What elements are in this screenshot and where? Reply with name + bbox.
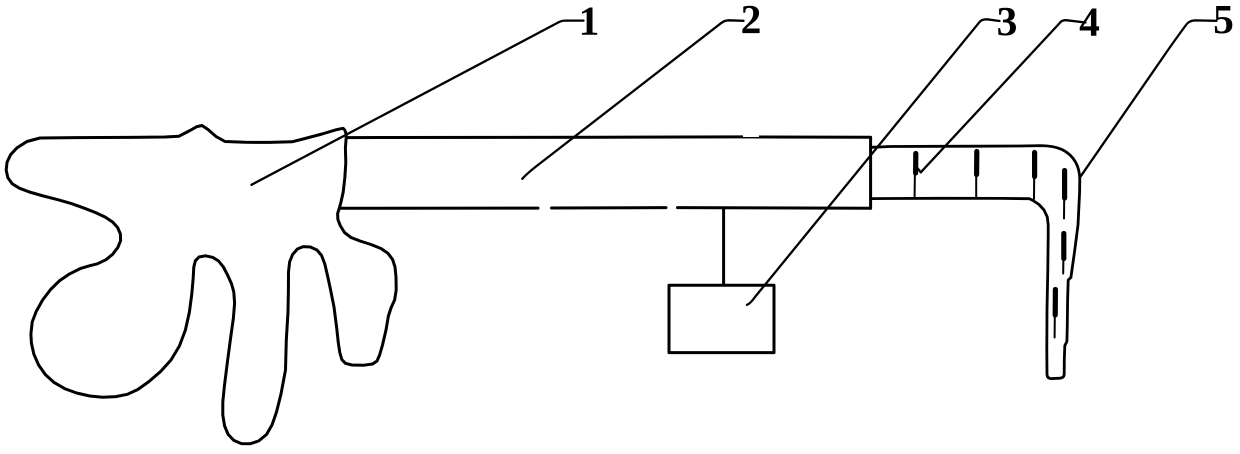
tick mark T3 tail — [1033, 176, 1035, 200]
leader line 5 — [1080, 20, 1217, 177]
part 4/5 strip and elbow outline — [872, 146, 1080, 379]
svg-text:2: 2 — [741, 0, 762, 42]
leader line 1 — [252, 21, 584, 185]
tick mark T4 thick — [1062, 171, 1067, 199]
part 2 main bar: bottom edge dash a — [339, 207, 538, 210]
leader line 4 — [921, 20, 1086, 172]
tick mark T2 thick — [974, 152, 979, 175]
tick mark T1 tail — [914, 172, 916, 197]
svg-text:3: 3 — [997, 0, 1018, 44]
part 3 box — [669, 285, 774, 352]
leader line 2 — [522, 20, 743, 179]
part 1 irregular body outline — [6, 126, 396, 444]
leader line 3 — [747, 19, 1000, 305]
svg-text:5: 5 — [1213, 0, 1234, 42]
tick mark T2 tail — [975, 174, 977, 198]
part 2 main bar: bottom edge dash c — [678, 206, 871, 210]
part 2 main bar: top edge and right edge — [347, 137, 871, 208]
tick mark T3 thick — [1032, 153, 1037, 177]
svg-text:4: 4 — [1079, 0, 1100, 45]
tick mark T1 thick — [913, 154, 918, 174]
part 2 main bar: bottom edge dash b — [552, 206, 667, 209]
tick mark T6 thick — [1053, 290, 1058, 316]
svg-text:1: 1 — [579, 0, 600, 44]
thin spot on top edge of part 2 — [743, 135, 759, 137]
tick mark T6 tail — [1054, 314, 1056, 338]
leader line 4 arrow stroke — [915, 165, 921, 173]
part 3 hanger stem — [722, 208, 725, 285]
tick mark T5 tail — [1062, 259, 1064, 274]
tick mark T4 tail — [1063, 198, 1065, 219]
tick mark T5 thick — [1061, 234, 1066, 259]
